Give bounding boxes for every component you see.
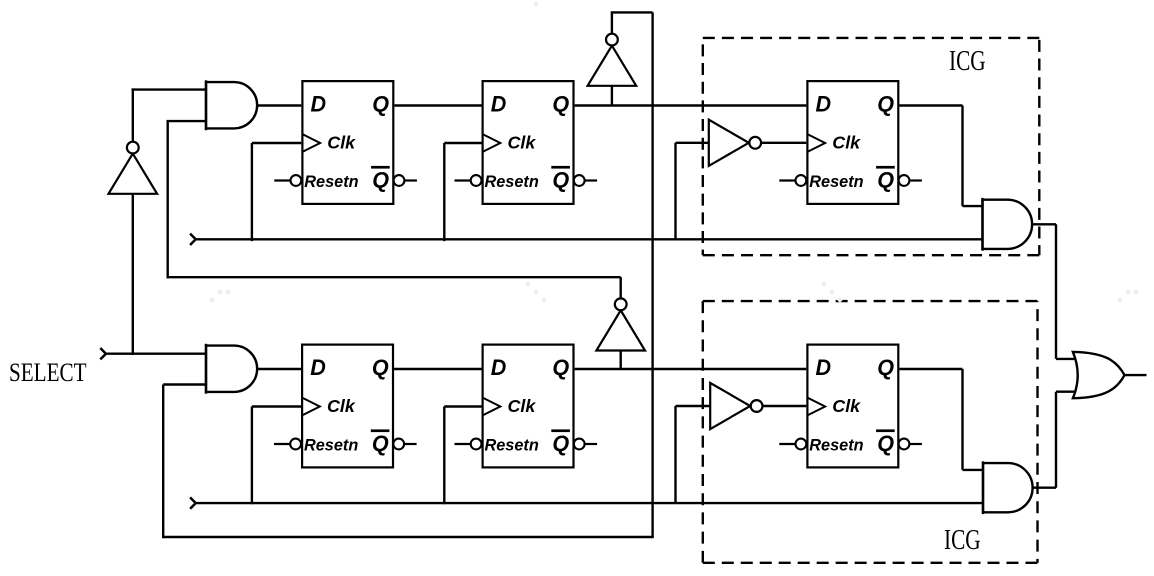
wire OR input 2 [1056, 391, 1076, 393]
wire OR input 1 [1056, 358, 1076, 360]
wire horizontal crosscouple upper [167, 276, 621, 278]
ICG dashed box top [703, 38, 1040, 255]
wire FF4 clk vertical to clk1 bus [251, 407, 253, 505]
wire inverter U4 input [676, 142, 709, 144]
wire AND A1 output to FF1 D [253, 104, 301, 106]
wire inverter U5 output to FF6 clk [762, 405, 806, 407]
wire clk0 riser to inverter U4 [674, 143, 676, 240]
wire into AND A3 input 1 [963, 205, 984, 207]
wire AND A4 output [1029, 487, 1057, 489]
wire SELECT input [106, 353, 206, 355]
wire FF4 Q to FF5 D [394, 368, 481, 370]
wire AND A2 input 2 [163, 383, 206, 385]
wire inverter U1 output up [132, 88, 134, 142]
ICG dashed box bottom [703, 301, 1038, 563]
svg-text:ICG: ICG [944, 525, 981, 556]
wire FF3 Q out [899, 104, 962, 106]
D flip-flop FF1 [274, 81, 417, 204]
inverter U5 (ICG bottom clock) [710, 383, 762, 429]
inverter U4 (ICG top clock) [709, 120, 761, 166]
input arrow SELECT [100, 348, 106, 359]
wire FF4 clk stub [252, 405, 301, 407]
wire stub to inverter U2 input [611, 85, 613, 106]
input arrow clk0 [190, 234, 196, 245]
wire FF2 clk stub [444, 142, 481, 144]
wire clk1 riser to inverter U5 [674, 406, 676, 503]
wire into AND A4 input 1 [963, 469, 984, 471]
wire inverter U4 output to FF3 clk [761, 142, 806, 144]
wire FF2 clk vertical to clk0 bus [443, 143, 445, 241]
wire to AND A1 input 1 [132, 88, 206, 90]
wire down to OR input 1 [1055, 224, 1057, 359]
wire FF3 Q down [961, 106, 963, 207]
wire vertical up to AND A2 input 2 [162, 385, 164, 539]
wire FF6 Q down [961, 369, 963, 470]
wire AND A3 output [1028, 223, 1056, 225]
wire FF1 Q to FF2 D [394, 104, 481, 106]
wire clk1 bus [196, 502, 983, 504]
svg-text:SELECT: SELECT [9, 359, 87, 388]
wire FF1 clk stub [252, 142, 301, 144]
inverter U1 (select) [109, 142, 158, 194]
wire FF5 clk stub [444, 405, 481, 407]
wire FF6 Q out [899, 368, 962, 370]
AND gate A2 [206, 344, 257, 394]
wire up to OR input 2 [1055, 392, 1057, 488]
input arrow clk1 [190, 497, 196, 508]
wire FF5 Q to FF6 D [575, 368, 807, 370]
D flip-flop FF5 [455, 345, 598, 468]
AND gate A1 [206, 80, 257, 130]
D flip-flop FF4 [274, 345, 417, 468]
wire down to inverter U3 bubble [620, 277, 622, 298]
wire top horizontal of U2 output [611, 11, 653, 13]
D flip-flop FF2 [455, 81, 598, 204]
wire AND A2 output to FF4 D [253, 368, 301, 370]
wire inverter U2 output up [611, 12, 613, 33]
wire OR output [1125, 374, 1147, 376]
inverter U3 (bottom crosscouple) [596, 298, 645, 350]
wire FF1 clk vertical to clk0 bus [251, 143, 253, 241]
inverter U2 (top crosscouple) [588, 34, 637, 86]
wire AND A1 input 2 [167, 120, 207, 122]
D flip-flop FF6 [779, 345, 922, 468]
AND gate A3 (ICG top) [983, 198, 1033, 251]
wire FF5 clk vertical to clk1 bus [443, 407, 445, 505]
svg-text:ICG: ICG [949, 46, 986, 77]
wire long vertical crosscouple down [651, 12, 653, 537]
wire clk0 bus [196, 238, 983, 240]
D flip-flop FF3 [779, 81, 922, 204]
OR gate output [1073, 352, 1125, 398]
wire FF2 Q to FF3 D [575, 104, 807, 106]
node SELECT junction to inverter U1 [132, 194, 134, 355]
wire vertical crosscouple from A1 input 2 [166, 121, 168, 278]
AND gate A4 (ICG bottom) [983, 461, 1033, 514]
wire inverter U5 input [676, 405, 711, 407]
wire bottom horizontal crosscouple [163, 536, 654, 538]
wire stub to inverter U3 input [620, 350, 622, 370]
